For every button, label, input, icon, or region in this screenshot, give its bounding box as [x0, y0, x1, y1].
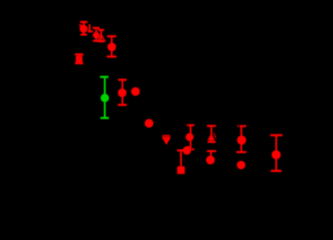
data point D3: red error bar only [88, 24, 93, 31]
data point D18: red circle with error bar [236, 125, 246, 152]
data point D7: red circle with error bar [107, 36, 117, 56]
data point D9: red circle with error bar [118, 80, 127, 105]
tick right of D14 [191, 148, 194, 150]
data point D4: red circle with error bar [93, 28, 100, 41]
data point D15: red square with upper error bar [177, 150, 185, 174]
data point D14: red circle [183, 146, 191, 154]
data point D6: red square with error bar [75, 54, 83, 63]
data point D10: red circle [131, 87, 140, 96]
data point D20: red circle with error bar [270, 135, 282, 171]
data point D8: green circle with long error bar [100, 77, 109, 118]
data point D11: red circle [145, 119, 154, 128]
data point D16: red filled triangle with error bar [207, 126, 216, 142]
data point D5: open red triangle with error bar [98, 30, 105, 41]
data point D1: tiny red dot [79, 24, 81, 26]
data point D19: red circle [237, 161, 246, 170]
data point D13: red circle with error bar [186, 124, 195, 147]
data point D2: red circle with error bar [80, 22, 88, 35]
data point D12: red upper-limit arrow [162, 135, 171, 145]
data point D17: red circle with upper error bar [206, 151, 216, 164]
